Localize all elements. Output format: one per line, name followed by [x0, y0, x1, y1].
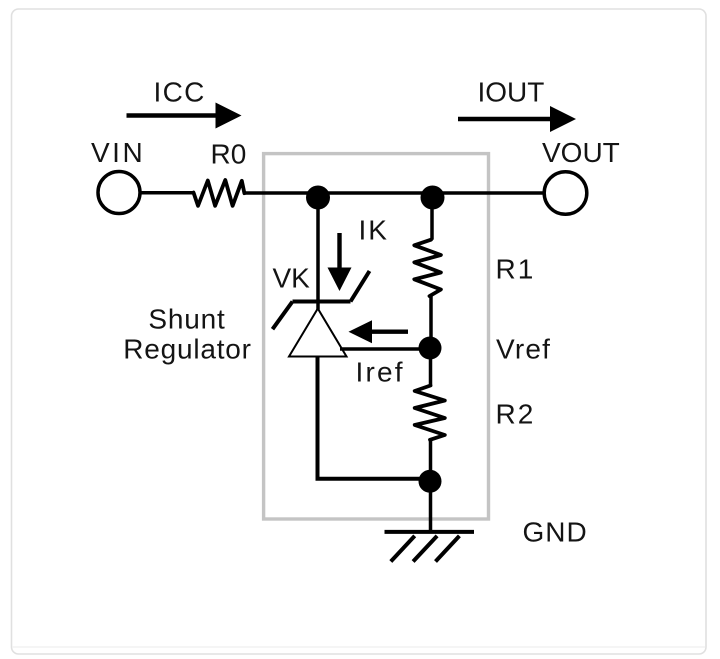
terminal VIN: [98, 172, 140, 214]
svg-text:Shunt: Shunt: [148, 304, 225, 335]
ground symbol: [385, 532, 475, 562]
wire R0 to VOUT: [244, 191, 544, 195]
svg-text:VOUT: VOUT: [542, 137, 620, 168]
svg-text:GND: GND: [523, 517, 588, 548]
svg-text:R0: R0: [211, 139, 247, 170]
current arrow ICC: [127, 103, 242, 129]
resistor R0: [194, 180, 245, 206]
junction node at ground branch: [419, 470, 442, 493]
wire node to ground: [429, 481, 433, 532]
svg-text:VIN: VIN: [91, 137, 145, 168]
cathode bar left bend: [273, 302, 293, 330]
wire node to shunt symbol cathode: [316, 196, 320, 310]
cathode bar right bend: [351, 271, 370, 302]
wire anode bottom run to node: [316, 477, 432, 481]
svg-text:IK: IK: [359, 215, 389, 246]
svg-text:R1: R1: [496, 254, 536, 285]
wire node to R1: [430, 196, 434, 240]
svg-text:ICC: ICC: [154, 77, 206, 108]
svg-text:VK: VK: [273, 263, 311, 294]
current arrow IOUT: [458, 106, 576, 132]
current arrow IK: [328, 233, 352, 291]
wire R1 to Vref node: [429, 296, 433, 349]
junction node Vref: [419, 337, 442, 360]
svg-text:Vref: Vref: [496, 334, 551, 365]
wire VIN to R0: [140, 191, 194, 195]
junction node at VIN branch: [306, 186, 330, 210]
svg-text:R2: R2: [496, 399, 536, 430]
label Shunt Regulator: [123, 304, 252, 365]
shunt regulator cathode bar: [293, 300, 351, 304]
shunt regulator triangle: [289, 309, 347, 357]
wire anode down from triangle: [316, 357, 320, 479]
wire R2 to bottom node: [429, 440, 433, 481]
svg-text:IOUT: IOUT: [478, 77, 545, 108]
terminal VOUT: [544, 172, 587, 215]
shunt regulator block box: [264, 154, 489, 519]
resistor R1: [414, 240, 441, 296]
svg-text:Iref: Iref: [356, 357, 405, 388]
wire triangle reference to Vref node: [340, 347, 431, 351]
resistor R2: [415, 386, 445, 440]
junction node at VOUT branch: [421, 186, 445, 210]
wire Vref node to R2: [429, 348, 433, 386]
current arrow Iref: [349, 320, 409, 343]
svg-text:Regulator: Regulator: [123, 334, 252, 365]
